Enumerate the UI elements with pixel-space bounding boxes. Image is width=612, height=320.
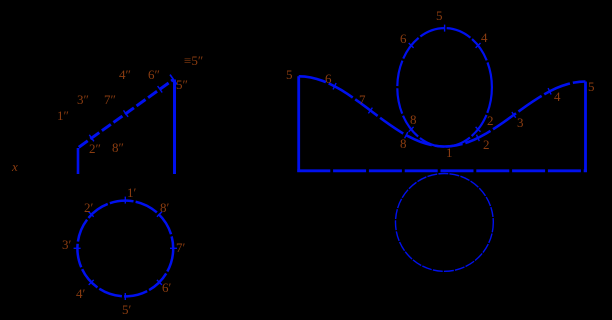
svg-text:4: 4 [481,30,488,45]
svg-text:8: 8 [410,112,417,127]
svg-text:1′: 1′ [127,185,137,200]
svg-text:6: 6 [400,31,407,46]
svg-text:2: 2 [483,137,490,152]
svg-text:x: x [11,159,18,174]
ellipse tick 8 [409,127,414,132]
tick 3' [74,247,81,249]
svg-text:8″: 8″ [112,140,124,155]
svg-text:5″: 5″ [176,77,188,92]
svg-text:6: 6 [325,71,332,86]
tick 4' [89,280,94,285]
development: base line (dashed) [297,169,587,172]
development: left edge [297,76,300,172]
tick 2' [89,212,94,217]
svg-text:6″: 6″ [148,67,160,82]
tick on slant at 4''6'' [158,86,163,93]
svg-text:2′: 2′ [84,200,94,215]
svg-text:1: 1 [446,145,453,160]
tick at point 5'' (corner) [170,75,177,85]
svg-text:≡5″: ≡5″ [184,53,203,68]
ellipse tick 2 [476,127,481,132]
tick curve point 3 [512,112,516,118]
svg-text:3′: 3′ [62,237,72,252]
svg-text:4′: 4′ [76,286,86,301]
right generator (frontal projection) [173,80,176,175]
ellipse tick 5 [444,25,446,32]
svg-text:7′: 7′ [176,240,186,255]
tick 1' [124,197,126,204]
section trace (dashed slant line) [77,80,174,149]
svg-text:5: 5 [286,67,293,82]
svg-text:3: 3 [517,115,524,130]
ellipse tick 4 [476,43,481,48]
tick curve point 8 [405,132,408,138]
development: right edge [584,82,587,173]
tick 7' [170,247,177,249]
svg-text:5′: 5′ [122,302,132,317]
svg-text:4″: 4″ [119,67,131,82]
svg-text:2: 2 [487,113,494,128]
svg-text:3″: 3″ [77,92,89,107]
svg-text:5: 5 [436,8,443,23]
tick curve point 4 [548,88,551,94]
svg-text:8′: 8′ [160,200,170,215]
svg-text:1″: 1″ [57,108,69,123]
base circle of development [396,174,494,272]
tick curve point 2 [477,135,480,141]
svg-text:5: 5 [588,79,595,94]
svg-text:2″: 2″ [89,141,101,156]
ellipse tick 6 [409,43,414,48]
svg-text:7: 7 [359,92,366,107]
svg-text:4: 4 [554,89,561,104]
development: sinusoid curve [299,76,586,146]
tick on slant at 2''8'' [89,135,94,142]
tick on slant at 3''7'' [124,110,129,117]
horizontal projection circle [77,201,173,297]
true-size section ellipse [397,28,492,147]
tick curve point 7 [368,108,372,114]
left generator (frontal projection) [77,148,80,174]
svg-text:7″: 7″ [104,92,116,107]
svg-text:6′: 6′ [162,280,172,295]
tick curve point 6 [333,83,336,89]
tick 6' [157,280,162,285]
svg-text:8: 8 [400,136,407,151]
tick 8' [157,212,162,217]
tick 5' [124,293,126,300]
